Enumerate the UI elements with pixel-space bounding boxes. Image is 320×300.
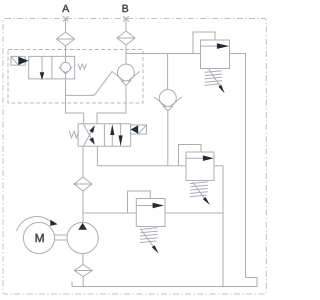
port label A [62,5,69,12]
wire RV3 outlet [165,212,223,214]
relief valve RV2 adjust arrow [193,182,205,199]
relief valve RV2 box [186,152,214,181]
valve V1 blocked arrow [41,57,43,73]
filter F1 [57,32,75,46]
relief valve RV3 spring [140,228,158,243]
solenoid Y1 [11,56,25,65]
filter F3 [74,177,92,191]
relief valve RV1 adjust arrow [209,69,221,86]
relief valve RV2 arrow [186,157,204,159]
relief valve RV1 arrow [201,45,218,47]
wire A line [66,19,84,124]
motor M1 [23,222,54,253]
relief valve RV2 pilot [179,145,202,166]
check valve CV2 [159,90,176,107]
spring V1 [78,64,87,70]
relief valve RV2 spring [190,182,208,197]
relief valve RV1 pilot [193,32,215,54]
relief valve RV3 arrow [136,205,153,207]
wire suction filter to tank [82,277,84,287]
relief valve RV1 box [201,40,230,69]
wire RV2 outlet [214,165,223,167]
check valve CV1 [118,64,135,81]
wire pump branch to relief RV3 [83,212,136,214]
valve V2 body [78,124,131,147]
wire CV1 to valve V2 [97,85,126,123]
wire B line upper [125,19,127,65]
spring V2 [69,131,78,138]
valve V1 check symbol [61,62,71,72]
wire CV2 to RV2 inlet [167,111,169,166]
shaft coupling [55,235,67,240]
solenoid Y2 [131,125,147,134]
tank line [72,282,257,287]
pilot line to check valve CV1 [66,71,113,95]
wire pump suction [82,254,84,265]
filter F4 [74,265,92,277]
valve V2 parallel arrows [112,124,120,147]
pump P1 [67,222,98,253]
wire B junction to relief RV1 [126,53,201,55]
wire filter F3 to pump [82,191,84,223]
relief valve RV3 adjust arrow [141,230,154,247]
manifold dashed box [8,50,143,104]
wire RV1 outlet [230,54,258,287]
port B cross [123,16,129,21]
filter F2 [117,31,135,45]
wire V2 to RV2 inlet [97,146,186,166]
valve V1 body [29,56,75,79]
wire CV2 branch [167,54,169,90]
port A cross [63,16,69,21]
return line [222,166,224,287]
enclosure border [3,19,266,295]
port label B [123,5,129,12]
valve V2 crossed arrows [83,124,91,146]
relief valve RV1 spring [204,71,222,86]
relief valve RV3 box [136,199,165,227]
motor rotation arrow [17,216,51,231]
wire V2 to pump line [82,146,84,177]
relief valve RV3 pilot [128,191,151,213]
